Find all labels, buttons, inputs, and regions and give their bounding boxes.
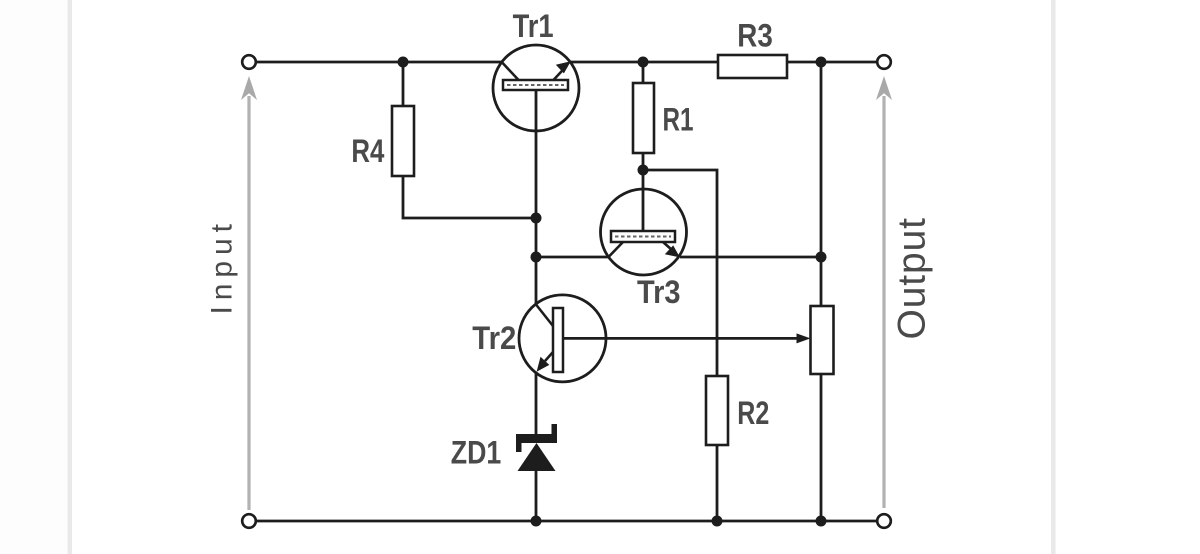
wire top rail middle (Tr1 emitter to R3) [570,61,718,64]
output terminal top right [877,55,891,69]
output arrow (gray, pointing up) [876,76,892,508]
wire bottom rail [256,520,878,523]
resistor R4 [392,106,414,176]
node Tr1 base / R4 junction [531,213,542,224]
wire R1 bottom lead [642,153,645,170]
resistor R2 [706,376,728,445]
svg-text:R4: R4 [351,133,384,169]
potentiometer body [811,306,834,374]
wire right vertical (output junction down to pot) [820,62,823,257]
svg-text:R2: R2 [737,395,769,431]
transistor Tr3 [601,170,687,275]
wire R1 top lead [642,62,645,83]
resistor R1 [633,83,654,153]
wire Tr3 emitter to right vertical [680,256,821,259]
wire main vertical into Tr2 [535,257,538,305]
wire R4 top lead [402,62,405,106]
node ZD1 bottom rail junction [531,516,542,527]
node R3 right / output junction [816,57,827,68]
wire junction to R2 branch (right then down) [643,170,717,376]
svg-text:Output: Output [891,218,934,340]
wire pot bottom lead [820,374,823,521]
input terminal top left [242,55,256,69]
svg-text:ZD1: ZD1 [451,435,502,471]
resistor R3 [718,55,787,78]
node R4 top (junction on top rail) [398,57,409,68]
wire pot top lead [820,257,823,306]
wire ZD1 bottom lead [535,471,538,521]
input arrow (gray, pointing up) [241,76,257,510]
node Tr2 collector / Tr3 collector junction [531,252,542,263]
input terminal bottom left [242,514,256,528]
wire junction to Tr3 collector [536,256,608,259]
svg-text:Tr3: Tr3 [637,274,681,310]
node R1 top (junction on top rail) [638,57,649,68]
wire Tr2 emitter to ZD1 [535,372,538,436]
wire R2 bottom lead [716,445,719,521]
svg-text:R1: R1 [663,101,694,137]
output terminal bottom right [877,514,891,528]
svg-text:Tr1: Tr1 [513,8,554,44]
node R1 / Tr3 base / R2 junction [638,165,649,176]
wire main vertical to Tr3 collector node [535,218,538,257]
node R2 bottom rail junction [712,516,723,527]
svg-text:Tr2: Tr2 [472,320,516,356]
wire top rail left (input terminal to Tr1 collector) [256,61,502,64]
zener diode ZD1 [516,424,557,471]
wire R4 bottom lead to Tr1 base node [403,176,536,218]
node Tr3 emitter / pot junction [816,252,827,263]
node pot bottom rail junction [816,516,827,527]
wire Tr1 base down the main vertical [535,131,538,218]
potentiometer wiper arrow (from Tr2 base) [606,333,811,343]
transistor Tr2 [519,295,606,382]
svg-text:R3: R3 [737,18,773,54]
wire top rail right (R3 to output terminal) [787,61,878,64]
transistor Tr1 [493,45,579,131]
